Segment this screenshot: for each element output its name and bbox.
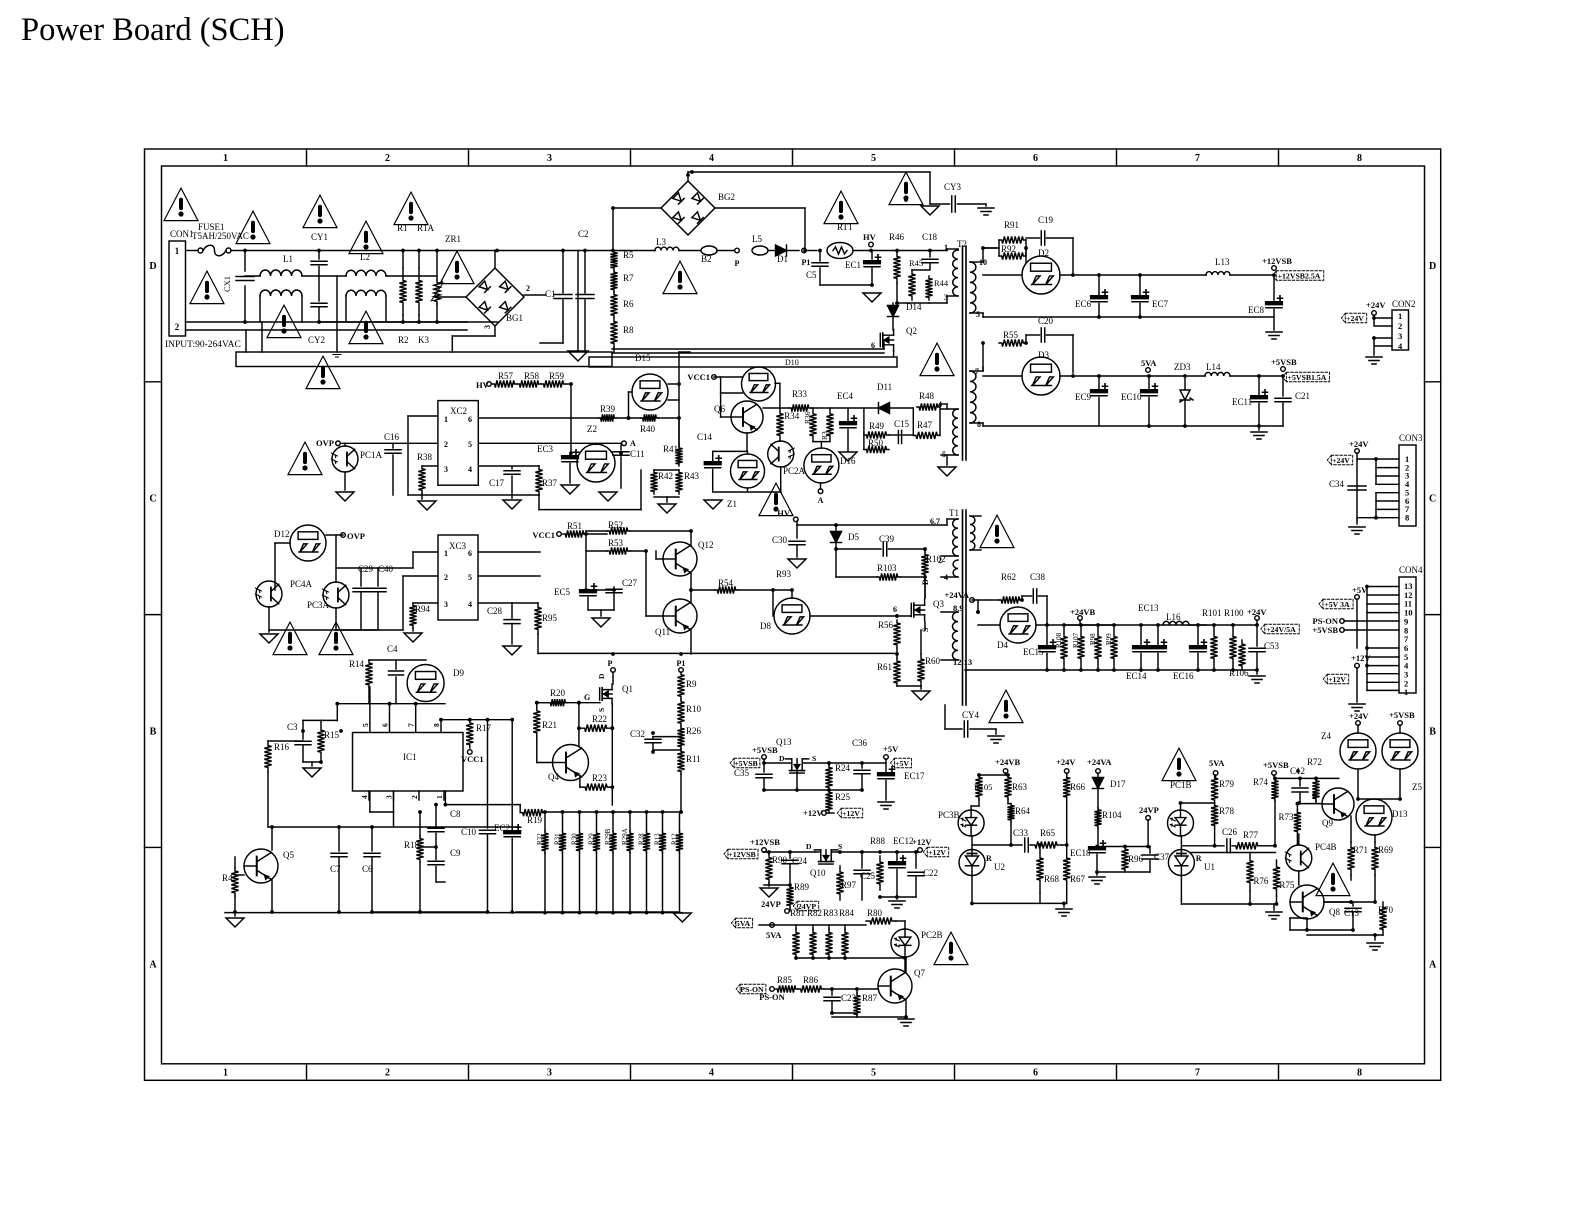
svg-text:D: D [806,842,812,851]
resistor R56 [893,620,900,648]
resistor R63 [1004,775,1011,800]
svg-text:R: R [1196,854,1202,863]
wires snubber [912,408,914,435]
shunt regulator U2 [959,850,985,876]
resistor R70 [1379,902,1386,935]
resistor R4 [231,868,238,896]
svg-text:R81: R81 [790,908,805,918]
node +24V [1255,616,1260,621]
svg-text:D10: D10 [785,358,799,367]
capacitor EC15 [1039,646,1055,648]
svg-text:+12V: +12V [803,808,823,818]
svg-text:R43: R43 [684,471,700,481]
svg-text:+24VA: +24VA [944,590,969,600]
capacitor C26 [1227,839,1231,853]
capacitor C10 [487,720,489,828]
svg-text:1: 1 [1404,687,1408,697]
svg-text:1: 1 [223,1068,228,1079]
svg-text:2: 2 [175,322,180,332]
resistor R64 [1007,804,1014,822]
node PS-ON [770,987,775,992]
svg-text:R31: R31 [554,833,562,845]
svg-text:R15: R15 [324,730,340,740]
svg-text:R86: R86 [803,975,819,985]
resistor R41 [678,418,680,446]
svg-text:8: 8 [977,420,981,429]
node 5VA [1146,368,1151,373]
svg-text:R52: R52 [608,520,623,530]
svg-text:Z2: Z2 [587,424,597,434]
svg-text:R62: R62 [1001,572,1016,582]
tag +5V 3A [1319,599,1353,609]
node +5V out [884,755,889,760]
svg-text:2: 2 [410,795,419,799]
svg-text:D2: D2 [1038,248,1049,258]
svg-text:+12V: +12V [1351,653,1371,663]
node +24VB u2 [1003,769,1008,774]
varistor ZR1 [436,251,438,281]
svg-text:R36: R36 [803,411,812,424]
svg-text:R91: R91 [1004,220,1019,230]
resistor R79 [1211,775,1218,803]
svg-text:2: 2 [444,573,448,582]
optocoupler PC1A [332,446,358,472]
capacitor C53 [1256,625,1258,646]
svg-text:R32: R32 [536,833,544,845]
svg-text:8.9: 8.9 [953,603,964,613]
svg-text:R12: R12 [671,833,679,845]
capacitor C36 [861,763,863,768]
svg-text:R29A: R29A [621,828,629,845]
svg-text:P1: P1 [677,659,686,668]
node OVP2 [341,533,346,538]
resistor R97 [836,866,843,900]
capacitor CY1 [318,251,320,260]
tag +12VSB2.5A [1272,271,1324,281]
svg-text:P: P [608,659,613,668]
node 24VP u2 [1146,816,1151,821]
resistor bank R32-R12 [541,831,548,853]
resistor R94 [409,603,416,628]
svg-text:+24V: +24V [1349,711,1369,721]
resistor R57 [492,380,517,387]
tag +12V q10 [923,847,948,857]
svg-text:R72: R72 [1307,757,1322,767]
wire u2 bottom [971,876,973,904]
transistor Q7 [878,969,912,1003]
capacitor C1 [562,251,564,294]
connector CON3 [1399,445,1416,526]
svg-text:R29: R29 [588,833,596,845]
resistor R33 [789,404,811,411]
svg-text:Q5: Q5 [283,850,294,860]
capacitor C6 [371,827,373,851]
svg-text:XC2: XC2 [450,406,467,416]
warning triangle (CY4) [989,690,1023,722]
svg-text:2: 2 [526,284,530,293]
svg-text:D17: D17 [1110,779,1126,789]
svg-text:4: 4 [360,795,369,799]
ground CON4 [1349,704,1365,711]
wire u2 mid row [972,844,1022,846]
svg-text:R93: R93 [776,569,792,579]
dual diode Z5 [1382,733,1418,769]
svg-text:R92: R92 [1001,244,1016,254]
svg-text:R5: R5 [623,250,634,260]
node HV3 [794,517,799,522]
resistor R49 [864,431,889,438]
svg-text:R77: R77 [1243,830,1259,840]
resistor R44 [925,276,932,300]
fuse FUSE1 [186,250,199,252]
node +24V CON3 [1355,449,1360,454]
svg-text:R39: R39 [600,404,616,414]
optocoupler PC4B [1286,845,1312,871]
svg-text:R6: R6 [623,299,634,309]
svg-text:EC12: EC12 [893,836,914,846]
svg-text:R48: R48 [919,391,935,401]
svg-text:C25: C25 [860,871,876,881]
svg-text:D12: D12 [274,529,290,539]
resistor R66 [1063,775,1070,800]
capacitor C8 [428,828,444,832]
node +5VSB con4 [1340,628,1345,633]
capacitor EC17 [878,773,894,775]
node A2 [818,489,823,494]
wires Q5 [271,827,273,850]
svg-text:+24V: +24V [1056,757,1076,767]
resistor R68 [1036,845,1043,893]
wire return rail 12VSB [983,316,1140,318]
resistor R48 [917,403,940,410]
wire Q3 source [924,622,926,630]
test point P [717,250,737,252]
svg-text:B: B [1429,727,1436,738]
bridge rectifier BG2 [661,181,715,235]
capacitor C24 [789,852,791,858]
svg-text:L2: L2 [360,252,370,262]
svg-text:4: 4 [468,600,472,609]
warning triangle (HV mid) [759,483,793,515]
wire Q13 gate [796,772,798,790]
ground EC17 [878,802,894,809]
capacitor C30 [796,525,798,538]
svg-text:Q13: Q13 [776,737,792,747]
svg-text:T1: T1 [949,508,959,518]
capacitor EC10 [1141,390,1157,392]
svg-text:PC2B: PC2B [921,930,943,940]
wire HV rail right [497,250,613,252]
wires CON3 [1356,453,1358,520]
svg-text:C6: C6 [362,864,373,874]
svg-text:5: 5 [976,310,980,319]
dual diode D15 [632,374,668,410]
svg-text:8: 8 [1357,153,1362,164]
wire BG2 top [687,175,689,181]
svg-text:EC13: EC13 [1138,603,1159,613]
svg-text:2: 2 [444,440,448,449]
svg-text:A: A [630,439,636,448]
svg-text:+24V/5A: +24V/5A [1266,625,1296,634]
svg-text:C27: C27 [622,578,638,588]
svg-text:R23: R23 [592,773,608,783]
diode D5 [831,532,842,543]
wire vcc top [369,659,426,661]
svg-text:RT1: RT1 [837,222,852,232]
ground 24V rail [1256,670,1258,674]
svg-text:Z4: Z4 [1321,731,1331,741]
svg-text:+24V: +24V [1349,439,1369,449]
wires q9 [1320,803,1323,805]
transistor Q10 (MOSFET) [819,863,833,865]
svg-text:R71: R71 [1353,845,1368,855]
svg-text:CY2: CY2 [308,335,325,345]
svg-text:Power Board (SCH): Power Board (SCH) [21,12,285,48]
resistor R99 [1110,625,1117,670]
svg-text:PS-ON: PS-ON [759,992,785,1002]
wire AC line top [245,250,497,252]
svg-text:R83: R83 [823,908,839,918]
svg-text:C: C [1429,494,1436,505]
ground CON2 [1366,357,1382,364]
tag +5VSB [730,758,760,768]
capacitor C12 [1299,778,1301,786]
wire Q7 emitter gnd [905,999,907,1017]
warning triangle (top right) [889,172,923,204]
warning triangle (ground bus) [306,356,340,388]
transistor Q13 (MOSFET) [790,772,804,774]
svg-text:L16: L16 [1166,612,1181,622]
svg-text:5: 5 [871,1068,876,1079]
svg-text:R89: R89 [794,882,810,892]
junction dots [243,249,247,253]
svg-text:R65: R65 [1040,828,1056,838]
svg-text:C53: C53 [1264,641,1280,651]
svg-text:C16: C16 [384,432,400,442]
svg-text:5VA: 5VA [766,930,782,940]
capacitor C20 [1041,328,1045,342]
wires CON4 [1356,599,1358,648]
svg-text:Q11: Q11 [655,627,670,637]
wire trunk [678,352,680,446]
IC XC2 [438,401,478,486]
svg-text:C10: C10 [461,827,477,837]
tag +12V q13 [837,808,862,818]
resistor R76 [1246,853,1253,891]
svg-text:2: 2 [1398,321,1402,331]
node +12VSB [1230,274,1274,276]
svg-text:R10: R10 [686,704,702,714]
svg-text:CON2: CON2 [1392,299,1416,309]
svg-text:R74: R74 [1253,777,1269,787]
bridge rectifier BG1 [437,296,466,298]
wire CY mid to ground bus [336,276,338,352]
capacitor CY2 [318,276,320,301]
node +24V CON2 [1372,311,1377,316]
svg-text:EC4: EC4 [837,391,854,401]
resistor R42 [650,470,657,494]
transistor Q11 [663,599,697,633]
node +5VSB u1 [1272,771,1277,776]
resistor R69 [1371,842,1378,875]
ground Z1 [713,491,781,493]
svg-text:EC10: EC10 [1121,392,1142,402]
resistor R60 [917,654,924,686]
svg-text:Z5: Z5 [1412,782,1422,792]
svg-text:C7: C7 [330,864,341,874]
svg-text:C18: C18 [922,232,938,242]
svg-text:R37: R37 [542,478,558,488]
resistor R72 [1312,778,1319,801]
resistor R10 [677,699,684,726]
wire AC neutral (CON1 pin 2) [186,322,468,330]
svg-text:R98: R98 [1089,633,1097,645]
inductor L2 (choke) [346,270,386,276]
capacitor EC7 [1132,296,1148,298]
wire top row to C12 [1274,777,1339,779]
resistor R11 [677,749,684,774]
svg-text:R103: R103 [877,563,897,573]
svg-text:B: B [150,727,157,738]
bottom rail xc2 [408,494,539,496]
svg-text:R84: R84 [839,908,855,918]
svg-text:C9: C9 [450,848,461,858]
svg-text:D15: D15 [635,353,651,363]
resistor R21 [533,703,540,741]
ground 5VSB rail [1258,426,1260,430]
svg-text:Q8: Q8 [1329,907,1340,917]
choke lower leads [259,296,261,322]
svg-text:2: 2 [385,1068,390,1079]
resistor R90 [765,854,772,883]
resistor R81 [792,929,799,958]
dual diode Z4 [1340,733,1376,769]
diode D11 [879,403,890,414]
resistor R61 [893,658,900,686]
transistor Q4 [553,745,589,781]
svg-text:C30: C30 [772,535,788,545]
resistor R9 [677,672,684,699]
svg-text:6: 6 [893,605,897,614]
svg-text:R30: R30 [571,833,579,845]
svg-text:R87: R87 [862,993,878,1003]
svg-text:R66: R66 [1070,782,1086,792]
svg-text:R73: R73 [1279,812,1295,822]
resistor R17 [466,720,473,748]
wires D10 anodes [714,376,742,378]
svg-text:C34: C34 [1329,479,1345,489]
tag +5VSB1.5A [1282,372,1329,382]
warning triangle (PC3A) [319,622,353,654]
node VCC1 [712,375,717,380]
svg-text:3: 3 [1398,331,1402,341]
resistor R35 [826,408,833,442]
svg-text:EC7: EC7 [1152,299,1169,309]
svg-text:5VA: 5VA [1209,758,1225,768]
resistor R14 [365,660,372,688]
svg-text:C20: C20 [1038,316,1054,326]
warning triangle (L2) [349,221,383,253]
thermistor RT1 [807,250,817,252]
svg-text:B2: B2 [701,254,712,264]
resistor R71 [1347,842,1354,875]
svg-text:S: S [597,708,606,712]
svg-text:R33: R33 [792,389,808,399]
dual diode D16 [804,448,839,483]
svg-text:R47: R47 [917,420,933,430]
svg-text:R7: R7 [623,273,634,283]
resistor R52 [607,527,630,534]
svg-text:VCC1: VCC1 [461,754,484,764]
resistor R88 [876,856,883,890]
dual diode D10 [742,367,776,401]
dual diode D9 [407,665,444,702]
svg-text:R38: R38 [417,452,433,462]
svg-text:R69: R69 [1378,845,1394,855]
svg-text:L13: L13 [1215,257,1230,267]
inductor L16 [1163,621,1189,625]
resistor R104 [1094,808,1101,828]
wire BG2 right leg [715,207,805,209]
svg-text:R16: R16 [274,742,290,752]
capacitor C2 [584,251,586,294]
svg-text:HV: HV [777,508,791,518]
tag 24VP [793,901,818,911]
svg-text:C33: C33 [1013,828,1029,838]
resistor R102 [921,552,928,577]
warning triangle (PC4A) [273,622,307,654]
wire D12 left [275,542,290,544]
svg-text:+24V: +24V [1247,607,1267,617]
svg-text:CX1: CX1 [222,276,232,292]
svg-text:+24VA: +24VA [1087,757,1112,767]
capacitor EC6 [1091,296,1107,298]
capacitor C38 [1033,589,1037,603]
svg-text:R101: R101 [1202,608,1222,618]
svg-text:Q7: Q7 [914,968,925,978]
capacitor C9 [428,861,444,865]
dual diode D3 [1022,357,1060,395]
node HV [853,250,871,252]
node P [611,668,616,673]
svg-text:R1A: R1A [417,223,435,233]
T1 right winding [970,516,975,550]
optocoupler PC3B (LED side) [958,810,984,836]
svg-text:R70: R70 [1378,905,1394,915]
capacitor EC16 [1190,646,1206,648]
svg-text:R79: R79 [1219,779,1235,789]
wire pin8 row [441,719,512,721]
svg-text:R46: R46 [889,232,905,242]
IC XC3 [438,535,478,620]
svg-text:4: 4 [709,1068,714,1079]
svg-text:C15: C15 [894,419,910,429]
wire 408 line [811,407,878,409]
IC IC1 [353,733,464,792]
svg-text:IC1: IC1 [403,752,417,762]
svg-text:INPUT:90-264VAC: INPUT:90-264VAC [165,340,241,350]
svg-text:R21: R21 [542,720,557,730]
svg-text:1: 1 [1398,311,1402,321]
svg-text:C28: C28 [487,606,503,616]
wire XC2 pin2 row [342,442,438,444]
svg-text:R75: R75 [1279,880,1295,890]
warning triangle (BG2 area) [663,261,697,293]
resistor R37 [535,466,542,495]
svg-text:EC18: EC18 [1070,848,1091,858]
wire BG1 right to C1 [524,294,546,296]
warning triangle (T2) [920,343,954,375]
